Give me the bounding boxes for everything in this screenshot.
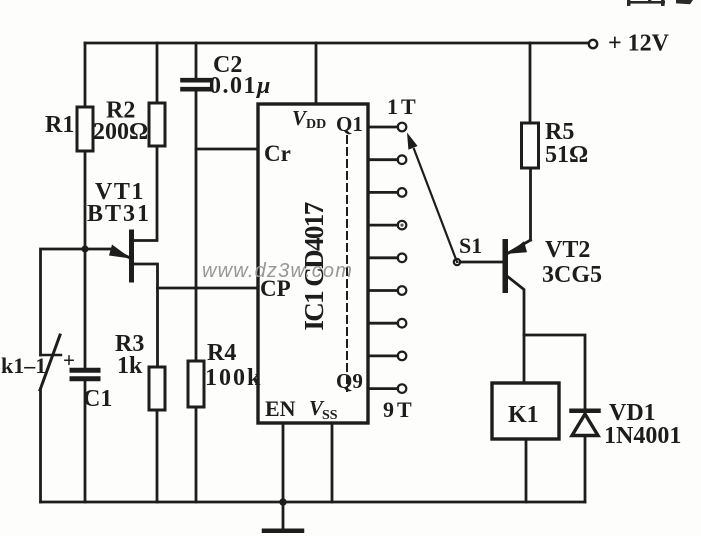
- svg-text:0.01μ: 0.01μ: [209, 73, 272, 99]
- svg-text:3CG5: 3CG5: [542, 262, 602, 288]
- node contact 3: [398, 188, 407, 197]
- svg-text:www.dz3w.com: www.dz3w.com: [202, 260, 353, 282]
- wire C2 top branch: [195, 43, 198, 78]
- wire collector branch to diode: [524, 335, 585, 408]
- wire R3 to bottom rail: [156, 410, 159, 502]
- node A junction dot: [81, 245, 88, 252]
- wire R1 to node A: [84, 151, 87, 368]
- svg-text:BT31: BT31: [87, 201, 151, 227]
- wire output stubs: [368, 127, 398, 389]
- node contact 6: [398, 286, 407, 295]
- node contact 2: [398, 155, 407, 164]
- wire CP line: [158, 287, 259, 290]
- node ground junction dot: [279, 498, 286, 505]
- resistor R3: [149, 367, 165, 410]
- node contact 9T: [398, 384, 407, 393]
- wire VD1 to bottom rail: [584, 436, 587, 503]
- wire EN stub: [282, 423, 285, 502]
- wire K1 to bottom rail: [525, 439, 528, 502]
- svg-text:51Ω: 51Ω: [545, 142, 588, 168]
- svg-text:R1: R1: [45, 112, 74, 138]
- diode VD1: [572, 408, 599, 413]
- wire C1 to bottom rail: [84, 381, 87, 502]
- wire node A to switch branch: [41, 249, 86, 355]
- wire C2 to R4: [195, 92, 198, 362]
- transistor VT1 (UJT): [130, 230, 134, 282]
- svg-text:1k: 1k: [117, 353, 143, 379]
- capacitor C2: [183, 78, 210, 83]
- capacitor C1: [72, 368, 98, 373]
- op-amp U1 IC1 CD4017 box: [258, 104, 368, 423]
- wire Cr line: [196, 148, 258, 151]
- svg-text:Q1: Q1: [336, 112, 363, 136]
- resistor R5: [522, 123, 539, 168]
- resistor R1: [77, 107, 93, 151]
- node contact 7: [398, 319, 407, 328]
- svg-text:+ 12V: + 12V: [608, 31, 670, 57]
- transistor VT2: [503, 240, 508, 293]
- wire S1 to VT2 base: [460, 261, 503, 264]
- wire R4 to bottom rail: [195, 407, 198, 502]
- svg-text:200Ω: 200Ω: [93, 119, 148, 145]
- svg-text:1N4001: 1N4001: [604, 423, 681, 449]
- switch k1-1: [41, 354, 62, 356]
- figure caption fragment top right: [627, 0, 693, 6]
- svg-text:VT2: VT2: [545, 237, 590, 263]
- svg-text:9T: 9T: [383, 397, 415, 422]
- wire bottom rail: [41, 501, 586, 504]
- wire R1 top branch: [84, 43, 87, 107]
- node +12V terminal: [589, 40, 597, 48]
- relay K1: [492, 383, 559, 439]
- node contact 8: [398, 352, 407, 361]
- svg-text:S1: S1: [459, 233, 482, 258]
- svg-text:Q9: Q9: [336, 369, 363, 393]
- switch S1 arm: [414, 149, 457, 262]
- svg-text:SS: SS: [322, 408, 338, 423]
- svg-text:K1: K1: [508, 402, 539, 428]
- svg-text:EN: EN: [265, 396, 296, 421]
- wire top +12V rail: [85, 42, 588, 45]
- wire R2 to VT1 B2: [133, 146, 157, 241]
- node contact 5: [398, 253, 407, 262]
- svg-text:Cr: Cr: [264, 141, 291, 166]
- wire switch to bottom rail: [39, 390, 42, 502]
- svg-text:1T: 1T: [387, 94, 419, 119]
- svg-text:DD: DD: [306, 117, 326, 132]
- svg-text:k1–1: k1–1: [1, 353, 46, 378]
- ground: [282, 502, 285, 529]
- wire R2 top branch: [156, 43, 159, 103]
- svg-text:100k: 100k: [205, 365, 262, 391]
- svg-text:C1: C1: [83, 386, 112, 412]
- wire R5 to VT2 emitter: [529, 168, 532, 240]
- wire VT1 B1 to R3: [133, 264, 158, 367]
- svg-text:R4: R4: [207, 340, 236, 366]
- wire VDD branch: [315, 43, 318, 104]
- resistor R4: [188, 361, 204, 407]
- wire R5 top branch: [529, 43, 532, 123]
- svg-text:+: +: [63, 348, 75, 372]
- node contact 1T: [398, 123, 407, 132]
- node contact 4: [398, 221, 407, 230]
- resistor R2: [149, 103, 165, 146]
- wire VSS stub: [331, 423, 334, 502]
